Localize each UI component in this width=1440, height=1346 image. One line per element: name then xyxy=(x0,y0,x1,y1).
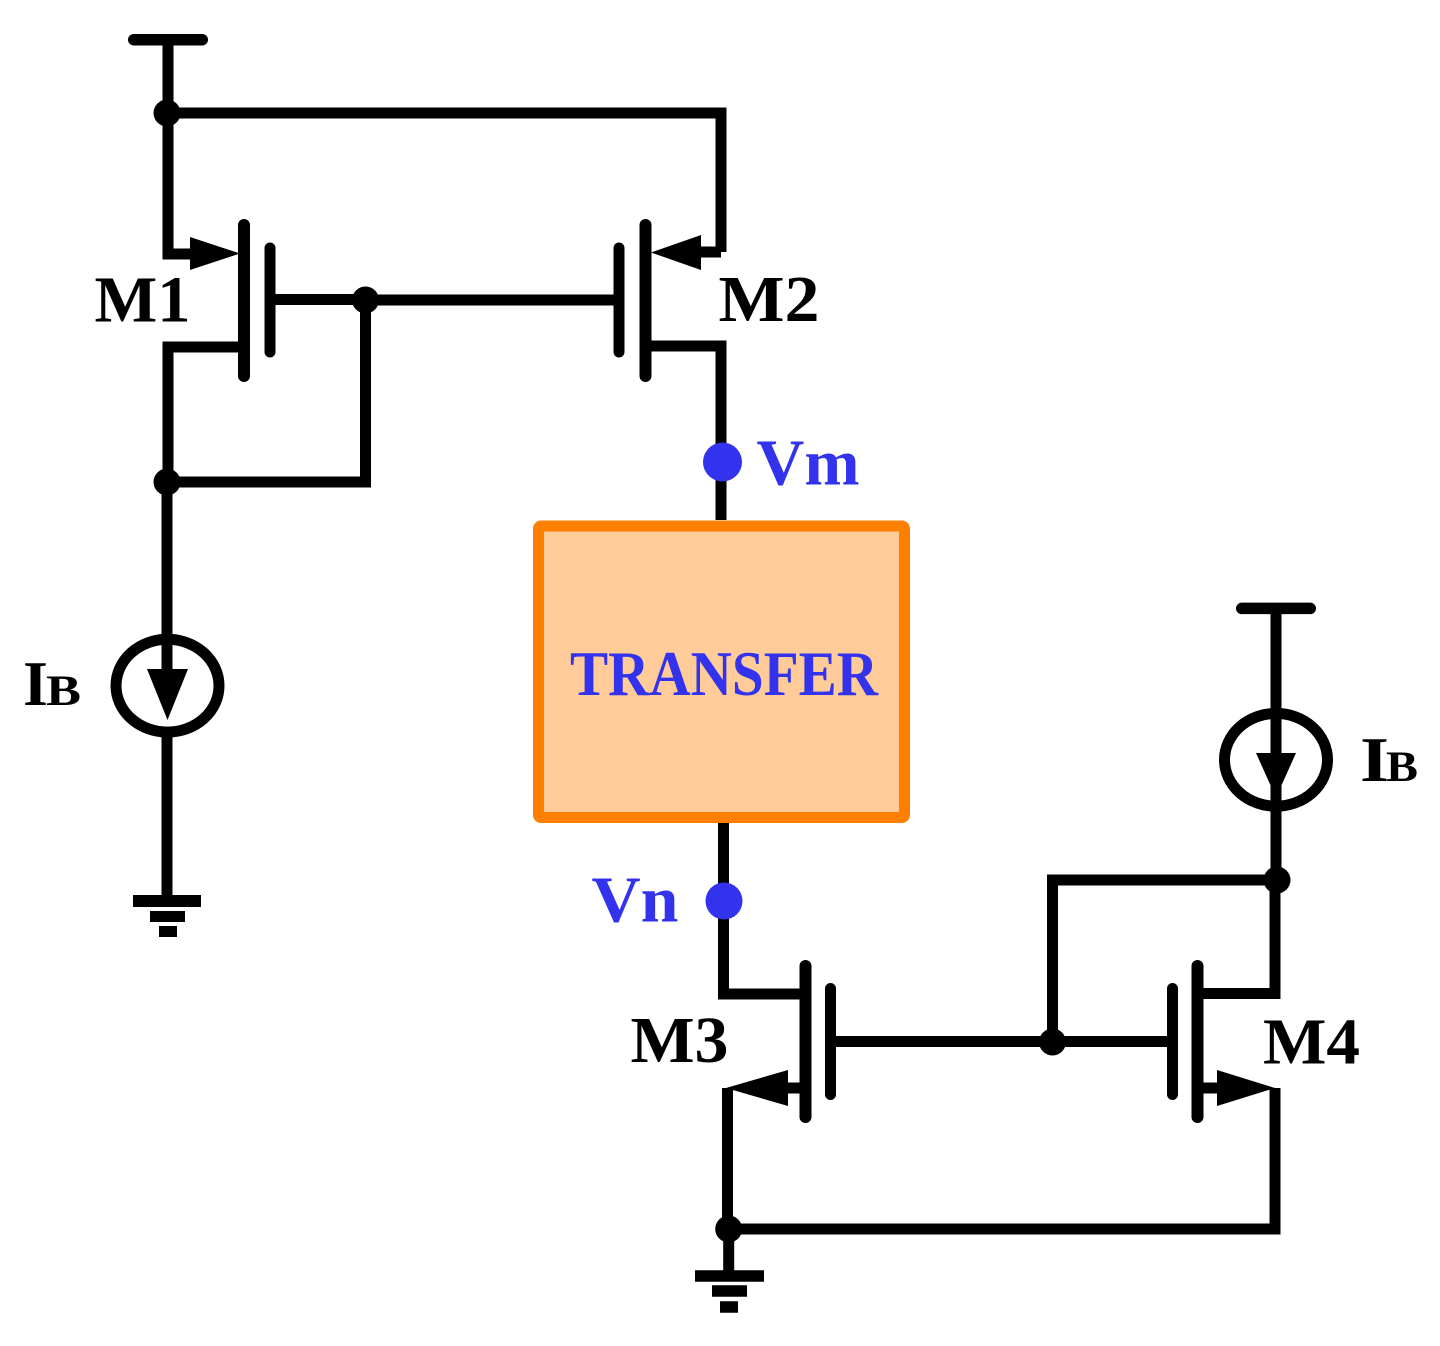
wire M3 source down xyxy=(722,1088,733,1229)
M1 channel bar xyxy=(238,225,250,376)
TRANSFER block xyxy=(539,526,905,818)
supply rail symbol (top right) xyxy=(1242,608,1311,880)
wire ground bus to M4 source xyxy=(729,1088,1275,1229)
node junction dot below IB (right) xyxy=(1264,867,1291,894)
M2 gate bar xyxy=(614,248,625,352)
svg-text:M3: M3 xyxy=(631,1004,729,1077)
M2 drain lead xyxy=(646,346,722,520)
wire gate bus M1-M2 xyxy=(366,295,620,306)
ground symbol (bottom) xyxy=(695,1276,764,1307)
M2 source arrow xyxy=(651,235,701,270)
node Vm dot xyxy=(703,443,742,482)
svg-text:M1: M1 xyxy=(95,264,191,337)
node junction dot at VDD / M1 source xyxy=(154,100,181,127)
M3 channel bar xyxy=(800,966,812,1117)
ground symbol (left) xyxy=(133,901,201,932)
M2 channel bar xyxy=(640,225,652,376)
M1 gate bar xyxy=(265,248,276,352)
M4 source arrow xyxy=(1217,1070,1275,1106)
svg-text:I: I xyxy=(23,648,48,719)
node Vn dot xyxy=(706,883,743,920)
node junction dot at ground bus xyxy=(715,1216,742,1243)
current source IB (left) arrow xyxy=(147,669,188,720)
svg-text:Vn: Vn xyxy=(592,864,679,937)
transistor M3 xyxy=(726,966,1053,1117)
current source IB (left) circle xyxy=(116,639,219,732)
label IB (left) xyxy=(23,648,81,719)
M3 gate bar xyxy=(825,989,836,1095)
wire junction to ground (bottom) xyxy=(723,1229,734,1271)
M4 channel bar xyxy=(1192,966,1204,1117)
transistor M4 xyxy=(1053,880,1276,1117)
transistor M1 xyxy=(168,225,366,482)
wire IB junction to M3/M4 gate bus xyxy=(1053,880,1278,1042)
wire IB to ground (left) xyxy=(162,734,173,900)
wire TRANSFER to M3 drain xyxy=(724,823,806,994)
M3 source arrow xyxy=(726,1070,788,1106)
svg-text:TRANSFER: TRANSFER xyxy=(570,639,879,709)
node junction dot at M1 drain / IB xyxy=(154,469,181,496)
M4 gate lead xyxy=(1053,1036,1173,1047)
node junction dot at M1 gate xyxy=(352,287,379,314)
svg-text:M2: M2 xyxy=(719,263,820,336)
current source IB (right) circle xyxy=(1225,713,1328,806)
node junction dot at M3/M4 gates xyxy=(1039,1029,1066,1056)
M1 source arrow xyxy=(190,237,240,270)
M4 source lead xyxy=(1198,1083,1219,1094)
wire M1 source from top rail xyxy=(168,113,192,254)
svg-text:I: I xyxy=(1360,724,1389,795)
M1 gate lead xyxy=(270,294,366,305)
M1 drain lead xyxy=(168,347,244,482)
M4 gate bar xyxy=(1167,989,1178,1095)
supply rail symbol (top left) xyxy=(134,40,203,108)
label IB (right) xyxy=(1360,724,1418,795)
wire diode connection (gate to drain of M1) xyxy=(167,300,366,482)
current source IB (right) arrow xyxy=(1256,753,1296,798)
M2 source lead xyxy=(700,247,721,258)
svg-text:B: B xyxy=(1386,744,1418,791)
svg-text:B: B xyxy=(46,668,81,715)
M3 gate lead xyxy=(831,1036,1053,1047)
transistor M2 xyxy=(619,225,721,520)
M3 source lead xyxy=(786,1083,806,1094)
wire M1 drain to IB source xyxy=(162,482,173,690)
svg-text:Vm: Vm xyxy=(757,427,860,500)
wire VDD to M2 source (top horizontal run) xyxy=(167,113,721,252)
M4 drain lead xyxy=(1198,880,1276,994)
svg-text:M4: M4 xyxy=(1263,1006,1360,1079)
